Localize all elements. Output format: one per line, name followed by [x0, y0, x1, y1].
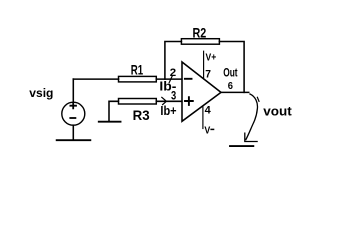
- wire ground to R3: [109, 101, 118, 121]
- vout probe arc: [246, 94, 258, 140]
- svg-text:Ib+: Ib+: [160, 103, 177, 118]
- voltage source plus sign: [70, 103, 76, 109]
- op-amp non-inverting input plus sign: [185, 97, 193, 105]
- wire vsig to R1: [73, 78, 118, 80]
- svg-text:V: V: [204, 125, 210, 137]
- wire vsig top to node: [72, 79, 74, 102]
- voltage source minus sign: [70, 117, 75, 119]
- svg-text:R3: R3: [133, 107, 150, 123]
- svg-text:6: 6: [228, 80, 233, 92]
- svg-text:Ib-: Ib-: [159, 79, 176, 94]
- svg-text:4: 4: [205, 104, 212, 116]
- svg-text:R2: R2: [193, 25, 207, 41]
- svg-text:vout: vout: [263, 103, 292, 118]
- wire R2 left leg: [165, 42, 182, 80]
- wire R3 to op-amp pin 3: [156, 100, 182, 102]
- voltage source V1 circle: [62, 102, 85, 125]
- svg-text:V+: V+: [206, 52, 217, 64]
- resistor R1 body: [119, 76, 157, 82]
- ground bar vout reference: [230, 145, 253, 147]
- current arrow Ib+ on pin 3 wire: [162, 97, 167, 104]
- svg-text:2: 2: [170, 67, 176, 79]
- op-amp U1 triangle: [182, 62, 221, 121]
- wire R1 to op-amp pin 2: [156, 78, 182, 80]
- resistor R3 body: [119, 99, 157, 105]
- svg-text:Out: Out: [223, 68, 238, 80]
- current arrow Ib- on pin 2 wire: [169, 76, 172, 83]
- svg-text:vsig: vsig: [29, 86, 53, 100]
- op-amp inverting input minus sign: [185, 78, 192, 80]
- resistor R2 body: [181, 39, 219, 45]
- pin 4 V- supply line: [202, 106, 204, 128]
- wire vsig bottom to ground: [72, 125, 74, 140]
- wire op-amp output pin 6: [221, 91, 249, 93]
- ground bar below vsig: [57, 139, 91, 141]
- vout probe arrowhead: [245, 133, 257, 141]
- svg-text:R1: R1: [131, 62, 144, 78]
- wire R2 right leg: [219, 42, 244, 93]
- svg-text:7: 7: [205, 68, 211, 80]
- ground bar left of R3: [99, 121, 121, 123]
- label V- minus stroke: [210, 128, 214, 130]
- pin 7 V+ supply line: [203, 51, 205, 79]
- vout probe arc upper tick: [257, 97, 259, 101]
